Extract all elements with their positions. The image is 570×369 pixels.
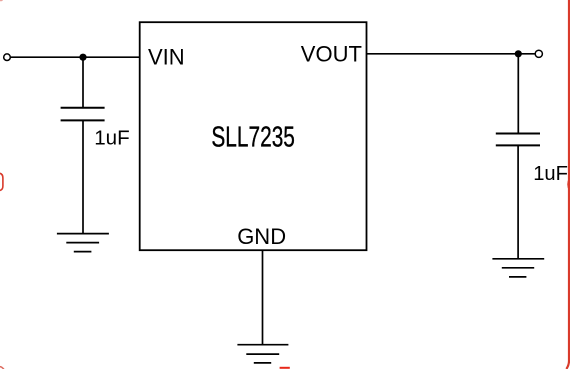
node input junction: [79, 54, 86, 61]
wire input horizontal: [10, 56, 140, 58]
wire C2 to ground: [517, 145, 519, 258]
output terminal: [535, 50, 542, 57]
svg-text:SLL7235: SLL7235: [211, 121, 294, 153]
wire output horizontal: [367, 53, 536, 55]
red annotation smudge top-left: [0, 0, 3, 1]
wire junction to C1: [82, 57, 84, 107]
capacitor C2: [496, 134, 540, 146]
red annotation border line right: [566, 0, 569, 369]
red annotation arc bottom-left: [0, 367, 4, 369]
ground input: [57, 234, 109, 252]
wire C1 to ground: [82, 120, 84, 233]
capacitor C1: [61, 108, 105, 121]
red annotation dash bottom: [280, 367, 290, 369]
node output junction: [515, 50, 522, 57]
wire GND pin to ground: [262, 250, 264, 345]
svg-text:GND: GND: [237, 224, 286, 249]
svg-text:VIN: VIN: [148, 44, 185, 69]
input terminal: [4, 54, 11, 61]
svg-text:1uF: 1uF: [94, 127, 130, 150]
svg-text:1uF: 1uF: [533, 163, 568, 185]
red annotation bracket right edge: [568, 178, 570, 190]
ground output: [492, 259, 544, 277]
red annotation bracket left edge: [0, 173, 3, 190]
ground GND pin: [237, 345, 288, 363]
IC U1 body: [140, 22, 367, 250]
svg-text:VOUT: VOUT: [301, 42, 362, 67]
wire junction to C2: [517, 54, 519, 134]
